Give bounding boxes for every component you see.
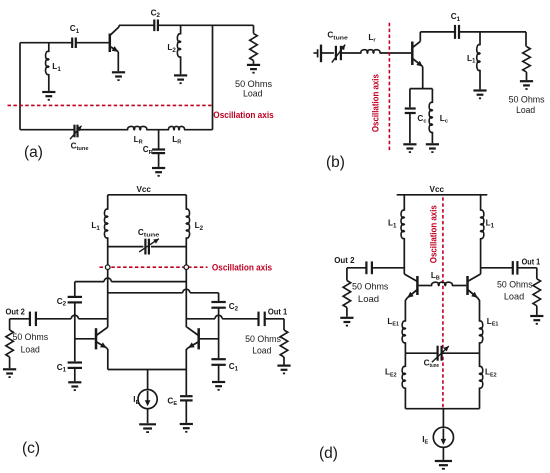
ground Lc (426, 143, 439, 145)
load resistor 50 Ohms right (280, 330, 288, 357)
load 2: resistor 50 Ohms (346, 268, 348, 281)
inductor LB between bases (419, 285, 433, 287)
inductor L1 left (403, 195, 405, 211)
capacitor Out2 coupling (365, 261, 367, 274)
inductor L1 right (480, 195, 482, 211)
capacitor C2 left (68, 296, 82, 298)
ground C1 left (68, 381, 81, 383)
svg-text:Vcc: Vcc (136, 185, 151, 194)
wire Ctune rail (405, 352, 437, 354)
ground load 1 (530, 315, 543, 317)
wire right branch (185, 237, 187, 327)
ground load 2 (340, 317, 353, 319)
wire left base column (74, 303, 76, 362)
transistor Q1 left (75, 338, 95, 340)
inductor LE2 left (404, 353, 406, 367)
wire Q1 collector (107, 326, 109, 328)
svg-text:50 Ohms: 50 Ohms (245, 334, 281, 344)
ground CR (152, 167, 165, 169)
wire base (20, 42, 72, 44)
oscillation axis dashed line (388, 23, 390, 151)
wire cross-couple B (left collector to right base) (108, 292, 183, 294)
wire Q2 emitter (478, 298, 480, 322)
transistor Q2 right (466, 276, 469, 295)
wire to base (380, 52, 412, 54)
wire to Lr (341, 52, 362, 54)
input terminal bars (313, 52, 317, 54)
ground CE (180, 423, 193, 425)
wire Ctune rail (108, 246, 144, 248)
svg-text:Out 2: Out 2 (334, 256, 355, 265)
wire CR stub (158, 130, 160, 149)
wire Vcc rail (108, 194, 187, 196)
variable capacitor Ctune (144, 239, 146, 255)
transistor Q2 right (200, 338, 219, 340)
variable capacitor Ctune (73, 125, 75, 138)
wire collector riser (419, 32, 421, 42)
wire Q1 emitter (107, 348, 108, 370)
wire left vertical (19, 43, 21, 130)
wire bottom rail (20, 129, 74, 131)
capacitor Out2 coupling (29, 312, 31, 327)
wire input (321, 52, 334, 54)
inductor LR left (128, 127, 147, 130)
load resistor 50 Ohms left (6, 330, 14, 357)
svg-text:50 Ohms: 50 Ohms (235, 79, 272, 89)
svg-text:(a): (a) (24, 144, 43, 161)
load resistor 50 Ohms (525, 32, 527, 47)
svg-text:50 Ohms: 50 Ohms (497, 279, 533, 289)
svg-text:(d): (d) (319, 445, 338, 462)
oscillation axis dashed line (100, 266, 208, 268)
svg-text:Out 1: Out 1 (268, 308, 288, 317)
wire Out1 tap (481, 267, 513, 269)
current source IE (147, 370, 149, 390)
capacitor CE (185, 370, 187, 396)
load 1: resistor 50 Ohms (536, 268, 538, 279)
inductor Lc (431, 89, 433, 103)
wire right vertical (212, 25, 214, 129)
oscillation axis text (370, 74, 381, 132)
node circle right (184, 265, 189, 270)
svg-text:50 Ohms: 50 Ohms (352, 281, 389, 291)
wire Q1 emitter (405, 298, 407, 322)
wire Out1 tap (186, 318, 215, 320)
oscillation axis dashed line (8, 104, 212, 106)
capacitor C1 (454, 25, 456, 39)
wire emitter (422, 67, 424, 89)
load resistor 50 Ohms (253, 25, 255, 33)
svg-text:Load: Load (358, 294, 379, 304)
svg-text:Oscillation axis: Oscillation axis (213, 110, 273, 121)
wire emitter (117, 52, 119, 71)
inductor LE1 right (480, 321, 483, 343)
ground load 1 (277, 365, 290, 367)
capacitor CR (152, 148, 165, 150)
wire emitter net rail (410, 88, 433, 90)
wire Q2 collector (185, 326, 188, 328)
capacitor C1 (71, 38, 73, 49)
capacitor Out1 coupling (257, 312, 259, 327)
ground C1 right (212, 381, 225, 383)
ground L2 (174, 74, 187, 76)
capacitor C2 right (211, 301, 225, 303)
variable capacitor Ctune (335, 46, 337, 60)
ground IE (139, 423, 156, 425)
oscillation axis dashed line (442, 197, 444, 408)
svg-text:Oscillation axis: Oscillation axis (370, 74, 381, 132)
capacitor C1 right (211, 358, 225, 360)
transistor Q1 (411, 42, 414, 66)
ground load (520, 80, 533, 82)
svg-text:50 Ohms: 50 Ohms (509, 95, 545, 105)
wire to load 2 (10, 318, 30, 320)
current source IE (442, 409, 444, 428)
wire bottom rail (405, 408, 479, 410)
wire to load 1 (265, 318, 284, 320)
ground IE (435, 460, 452, 462)
ground L1 (473, 89, 486, 91)
svg-text:Out 2: Out 2 (6, 308, 26, 317)
svg-text:50 Ohms: 50 Ohms (12, 332, 48, 342)
transistor Q1 left (416, 276, 419, 295)
ground L1 (42, 91, 55, 93)
ground load 2 (3, 368, 16, 370)
wire top rail (420, 31, 455, 33)
wire right base column (218, 308, 220, 358)
ground load (247, 64, 260, 66)
wire top rail (119, 24, 154, 26)
wire Q2 emitter (186, 348, 188, 370)
svg-text:Load: Load (243, 89, 263, 99)
svg-text:Oscillation axis: Oscillation axis (429, 205, 440, 263)
transistor Q1 (109, 34, 112, 53)
wire collector riser (118, 25, 120, 27)
svg-text:Load: Load (252, 345, 271, 355)
svg-text:Load: Load (516, 105, 535, 115)
svg-text:(c): (c) (22, 440, 40, 457)
inductor LR right (169, 127, 185, 130)
variable capacitor Ctune (437, 346, 439, 361)
wire Vcc rail (397, 194, 488, 196)
ground Cc (403, 143, 416, 145)
oscillation axis text (429, 205, 440, 263)
node circle left (105, 265, 110, 270)
inductor L1 (48, 43, 50, 52)
wire Out2 tap (36, 318, 71, 320)
capacitor C1 left (68, 361, 82, 363)
svg-text:Load: Load (504, 291, 524, 301)
svg-text:Load: Load (21, 344, 40, 354)
wire common emitter (108, 369, 187, 371)
ground emitter (112, 71, 125, 73)
svg-text:Out 1: Out 1 (522, 258, 541, 267)
capacitor Out1 coupling (512, 261, 514, 275)
inductor L2 (185, 195, 187, 210)
svg-text:Oscillation axis: Oscillation axis (212, 263, 272, 274)
svg-text:Vcc: Vcc (430, 185, 445, 194)
inductor L1 (479, 32, 481, 45)
wire left branch (107, 237, 109, 327)
inductor LE2 right (479, 353, 481, 367)
wire Q1 collector (403, 273, 405, 275)
inductor LE1 left (402, 321, 405, 343)
inductor L2 (180, 25, 182, 34)
inductor Lr (361, 50, 380, 53)
inductor L1 (107, 195, 109, 210)
capacitor Cc (409, 89, 411, 108)
capacitor C2 (153, 20, 155, 32)
wire cross-couple A (left base to right collector) (74, 282, 76, 297)
svg-text:(b): (b) (326, 154, 345, 171)
wire Q2 collector (480, 273, 482, 275)
wire Out2 tap (347, 267, 366, 269)
